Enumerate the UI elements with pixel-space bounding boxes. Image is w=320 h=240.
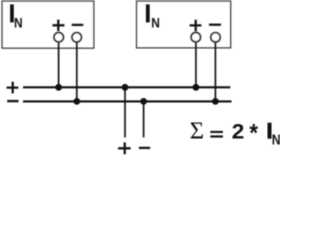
svg-text:N: N — [151, 14, 160, 30]
svg-text:*: * — [249, 119, 258, 148]
svg-text:N: N — [14, 14, 23, 30]
svg-text:N: N — [272, 132, 280, 148]
svg-text:2: 2 — [232, 119, 245, 143]
svg-text:Σ: Σ — [190, 118, 204, 145]
